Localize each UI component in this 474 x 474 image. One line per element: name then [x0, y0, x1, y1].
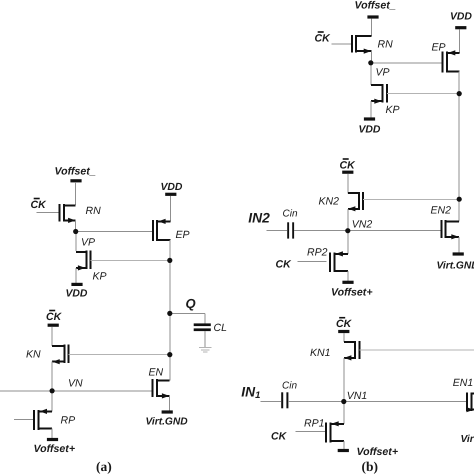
svg-text:IN2: IN2	[248, 210, 270, 225]
label Cin (IN1 branch)	[282, 380, 297, 391]
wire CK terminal to KN2 drain	[347, 174, 349, 194]
wire VP to KP drain (b)	[370, 63, 372, 85]
transistor KP (panel b)	[371, 84, 387, 104]
wire VN to RP source	[51, 391, 53, 412]
transistor RP1 (panel b)	[326, 421, 344, 442]
net label CK-bar (a, lower)	[46, 310, 63, 323]
capacitor Cin plates (IN1 branch)	[281, 392, 288, 408]
terminal Voffset_ (a)	[70, 179, 81, 182]
wire VN input line	[0, 390, 153, 392]
svg-text:RN: RN	[378, 39, 394, 51]
svg-text:VDD: VDD	[359, 125, 381, 136]
label EP (a)	[176, 229, 190, 241]
transistor EP (panel b)	[443, 50, 460, 72]
net label CK (RP1 gate)	[271, 431, 288, 443]
wire KN gate to column node	[69, 354, 170, 356]
svg-text:VDD: VDD	[161, 182, 183, 193]
svg-text:VDD: VDD	[450, 11, 472, 22]
net label Voffset+ (b, RP1)	[357, 446, 399, 458]
terminal Voffset_ (b)	[367, 15, 378, 18]
wire RP2 drain to Voffset+ terminal	[347, 271, 349, 281]
node VP (b)	[368, 60, 373, 65]
wire VN1 to EN1 gate	[344, 401, 467, 403]
label IN1	[241, 384, 260, 401]
label VN (a)	[68, 378, 83, 390]
svg-text:CK: CK	[315, 33, 332, 45]
svg-text:KN1: KN1	[310, 347, 330, 359]
svg-text:VP: VP	[81, 237, 95, 249]
wire RN source to node VP	[75, 220, 77, 229]
terminal VDD (b top)	[455, 26, 466, 29]
net label Virt.GND (b, EN2, clipped)	[437, 260, 474, 271]
wire CK to RN gate	[37, 212, 59, 214]
label RN (a)	[86, 205, 102, 217]
label Cin (IN2 branch)	[283, 208, 298, 219]
svg-text:EN1: EN1	[453, 377, 473, 389]
svg-text:Cin: Cin	[283, 208, 298, 219]
transistor EN (panel a)	[153, 379, 170, 398]
label KN2 (b)	[319, 195, 340, 207]
terminal CK (b KN1)	[338, 330, 349, 333]
svg-text:EN: EN	[149, 367, 164, 379]
label EN2	[431, 205, 452, 217]
wire KN1 gate to right edge	[360, 349, 474, 351]
net label Virt.GND (a)	[146, 417, 189, 428]
wire CK terminal to KN drain	[51, 327, 53, 346]
wire EP drain down right column (b)	[458, 71, 460, 221]
node KP-gate / EP-drain junction (b)	[457, 91, 462, 96]
wire KP gate to column node (b)	[387, 92, 459, 94]
transistor RN (panel a)	[59, 204, 75, 223]
net label Voffset_ (panel b top)	[355, 0, 396, 11]
label EN (a)	[149, 367, 164, 379]
net label CK-bar (b, KN2)	[340, 158, 357, 171]
label IN2	[248, 210, 270, 225]
label KP (a)	[93, 271, 107, 283]
svg-text:Virt.GND: Virt.GND	[461, 434, 474, 445]
label Q (output node)	[186, 296, 196, 311]
terminal Voffset+ (b, RP1)	[338, 449, 349, 452]
svg-text:CK: CK	[276, 259, 293, 271]
transistor KP (panel a)	[76, 251, 91, 271]
wire VN2 to RP2 source	[347, 231, 349, 254]
transistor EN1 (panel b, clipped at edge)	[466, 392, 474, 412]
terminal VDD (a top)	[165, 193, 176, 196]
label VN1	[347, 390, 367, 402]
svg-text:CK: CK	[46, 311, 63, 323]
net label CK (RP2 gate)	[276, 259, 293, 271]
node Q (a)	[167, 311, 172, 316]
transistor RN (panel b)	[352, 35, 372, 54]
transistor KN2 (panel b)	[348, 192, 363, 212]
terminal CK (b KN2)	[342, 171, 353, 174]
wire VN1 to RP1 source	[343, 402, 345, 424]
svg-text:KP: KP	[386, 104, 400, 116]
svg-text:CK: CK	[336, 318, 353, 330]
wire VDD terminal to EP source (b)	[459, 29, 461, 53]
transistor RP2 (panel b)	[330, 251, 348, 272]
wire VDD terminal to EP source	[169, 196, 171, 222]
wire RP drain to Voffset+ terminal	[51, 429, 53, 438]
svg-text:KN2: KN2	[319, 195, 340, 207]
label RN (b)	[378, 39, 394, 51]
node KN-gate / column junction (a)	[167, 352, 172, 357]
ground symbol (below CL)	[199, 348, 211, 353]
transistor EN2 (panel b)	[441, 220, 459, 239]
wire VP to KP drain	[75, 232, 77, 252]
svg-text:CL: CL	[214, 322, 228, 334]
label RP1	[304, 418, 324, 430]
label CL	[214, 322, 228, 334]
svg-text:EP: EP	[176, 229, 190, 241]
wire KN2 source to node VN2	[347, 209, 349, 231]
wire EN2 source to Virt.GND terminal	[458, 237, 460, 253]
wire Cin to node VN2	[294, 230, 348, 232]
label KN1 (b)	[310, 347, 330, 359]
wire KP source to VDD terminal (b)	[370, 101, 372, 118]
wire KN2 gate to column node (b)	[363, 198, 459, 200]
transistor KN1 (panel b)	[344, 341, 360, 361]
net label VDD (b, below KP)	[359, 125, 381, 136]
wire Voffset_ terminal to RN drain (b)	[370, 18, 372, 36]
svg-text:EP: EP	[432, 41, 446, 53]
wire Voffset_ terminal to RN drain	[75, 182, 77, 205]
transistor KN (panel a)	[52, 345, 69, 365]
svg-text:Voffset+: Voffset+	[331, 286, 373, 298]
svg-text:KN: KN	[26, 349, 41, 361]
svg-text:VN2: VN2	[352, 219, 373, 231]
wire IN1 to Cin capacitor	[261, 401, 282, 403]
capacitor CL plates	[194, 323, 211, 331]
node VP (a)	[73, 229, 78, 234]
svg-text:CK: CK	[271, 431, 288, 443]
svg-text:Virt.GND: Virt.GND	[146, 417, 189, 428]
svg-text:(a): (a)	[96, 459, 112, 474]
net label VDD (b, top right)	[450, 11, 472, 22]
wire EP drain to output column	[169, 240, 171, 314]
node KP-gate / EP-drain junction (a)	[167, 258, 172, 263]
wire CL to ground	[204, 331, 206, 347]
label KN (a)	[26, 349, 41, 361]
label EP (b)	[432, 41, 446, 53]
net label VDD (a, below KP)	[66, 289, 88, 300]
wire node VP to EP gate	[76, 231, 153, 233]
net label Voffset_ (panel a top)	[55, 166, 96, 178]
svg-text:Virt.GND: Virt.GND	[437, 260, 474, 271]
svg-text:Voffset+: Voffset+	[34, 443, 76, 455]
svg-text:RP1: RP1	[304, 418, 324, 430]
svg-text:(b): (b)	[362, 459, 379, 474]
svg-text:VDD: VDD	[66, 289, 88, 300]
wire EN source to Virt.GND terminal	[169, 396, 171, 411]
net label VDD (a, top)	[161, 182, 183, 193]
wire RP gate stub	[14, 419, 34, 421]
wire column Q to EN drain	[169, 313, 171, 380]
wire CK terminal to KN1 drain	[343, 333, 345, 342]
label RP (a)	[61, 415, 76, 427]
label EN1	[453, 377, 473, 389]
wire IN2 to Cin capacitor	[267, 230, 288, 232]
wire KN source to node VN	[51, 362, 53, 391]
svg-text:EN2: EN2	[431, 205, 452, 217]
svg-text:KP: KP	[93, 271, 107, 283]
svg-text:Voffset_: Voffset_	[355, 0, 396, 11]
svg-text:RP: RP	[61, 415, 76, 427]
node VN1	[341, 399, 346, 404]
wire VN2 to EN2 gate	[348, 230, 442, 232]
svg-text:VN: VN	[68, 378, 83, 390]
capacitor Cin plates (IN2 branch)	[287, 222, 294, 238]
net label CK-bar (a, top)	[31, 198, 48, 211]
wire RP1 drain to Voffset+ terminal	[343, 441, 345, 449]
wire KP gate to column node	[91, 259, 170, 261]
terminal Virt.GND (a)	[162, 410, 173, 413]
svg-text:Voffset_: Voffset_	[55, 166, 96, 178]
terminal Voffset+ (b, RP2)	[342, 281, 353, 284]
label VP (a)	[81, 237, 95, 249]
svg-text:Cin: Cin	[282, 380, 297, 391]
net label CK-bar (b, KN1)	[336, 317, 353, 330]
net label Voffset+ (b, RP2)	[331, 286, 373, 298]
terminal VDD (b, below KP)	[364, 117, 375, 120]
net label Virt.GND (b, EN1, clipped)	[461, 434, 474, 445]
net label Voffset+ (a)	[34, 443, 76, 455]
node VN (a)	[50, 388, 55, 393]
terminal VDD (a bottom of KP)	[71, 283, 82, 286]
svg-text:CK: CK	[31, 199, 48, 211]
svg-text:RN: RN	[86, 205, 102, 217]
terminal Virt.GND (b, EN2)	[453, 252, 464, 255]
wire KP source to VDD terminal	[75, 268, 77, 283]
label RP2	[307, 246, 328, 258]
wire node VP to EP gate (b)	[371, 62, 443, 64]
wire KN1 source to node VN1	[343, 358, 345, 402]
terminal Voffset+ (a)	[47, 438, 58, 441]
label VN2	[352, 219, 373, 231]
label VP (b)	[376, 67, 390, 79]
transistor RP (panel a)	[34, 409, 52, 430]
wire CK to RN gate (b)	[332, 43, 352, 45]
label KP (b)	[386, 104, 400, 116]
wire Q node to CL capacitor	[170, 313, 205, 323]
node VN2	[345, 228, 350, 233]
svg-text:VP: VP	[376, 67, 390, 79]
svg-text:CK: CK	[340, 160, 357, 172]
node KN2-gate / column junction (b)	[457, 197, 462, 202]
caption (b)	[362, 459, 379, 474]
svg-text:RP2: RP2	[307, 246, 328, 258]
transistor EP (panel a)	[153, 219, 171, 241]
svg-text:VN1: VN1	[347, 390, 367, 402]
wire CK to RP2 gate	[298, 261, 327, 263]
wire Cin to node VN1	[288, 401, 344, 403]
svg-text:Q: Q	[186, 296, 196, 311]
terminal CK (a lower)	[48, 324, 59, 327]
svg-text:Voffset+: Voffset+	[357, 446, 399, 458]
wire RN source to node VP (b)	[370, 51, 372, 60]
net label CK-bar (b top)	[315, 31, 332, 44]
wire CK to RP1 gate	[296, 430, 327, 432]
caption (a)	[96, 459, 112, 474]
